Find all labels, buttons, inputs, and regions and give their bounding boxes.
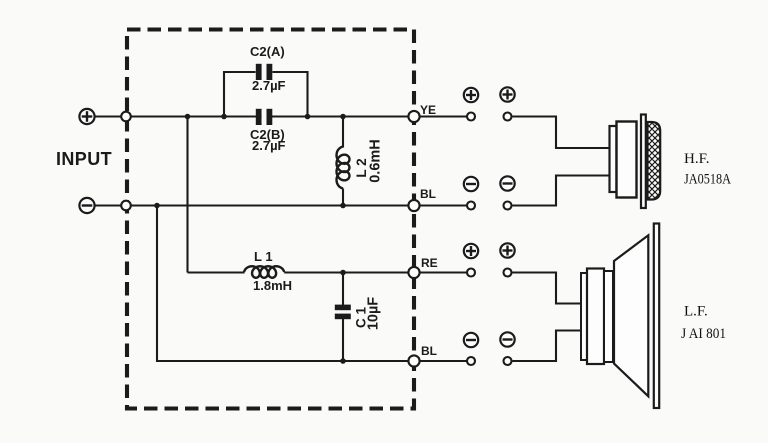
LF speaker + lug xyxy=(504,269,512,277)
wire : vertical feeder from + rail down to L1 rail xyxy=(186,117,188,273)
HF speaker - marker xyxy=(500,176,514,190)
crossover output + marker (HF) xyxy=(464,88,478,102)
box edge terminal (input -) xyxy=(121,201,131,211)
input + terminal xyxy=(79,109,94,124)
woofer magnet front slab xyxy=(604,271,613,362)
crossover output - marker (HF) xyxy=(464,177,478,191)
crossover output lug (LF -) xyxy=(467,357,475,365)
woofer magnet main slab xyxy=(587,269,604,365)
HF speaker - lug xyxy=(504,202,512,210)
svg-text:RE: RE xyxy=(421,256,438,270)
svg-text:2.7µF: 2.7µF xyxy=(252,138,286,153)
LF speaker + marker xyxy=(500,243,514,257)
box edge terminal RE xyxy=(408,267,419,278)
woofer cone xyxy=(614,235,648,396)
dashed crossover network box xyxy=(127,30,414,409)
input - terminal xyxy=(79,198,94,213)
wire YE terminal to HF+ lug xyxy=(420,115,468,117)
svg-text:L.F.: L.F. xyxy=(684,304,708,320)
tweeter crosshatched dome xyxy=(648,122,661,200)
wire : - input to BL terminal (rail y=205.5) xyxy=(94,204,414,206)
woofer magnet back slab xyxy=(581,273,587,360)
svg-text:J AI 801: J AI 801 xyxy=(681,326,726,342)
wire LF- to woofer xyxy=(513,331,583,362)
svg-text:JA0518A: JA0518A xyxy=(684,172,731,188)
capacitor C2(B) plates xyxy=(256,109,262,125)
svg-text:BL: BL xyxy=(421,344,437,358)
svg-text:2.7µF: 2.7µF xyxy=(252,78,286,93)
svg-text:C2(A): C2(A) xyxy=(250,44,285,59)
junction node: C2 branch left xyxy=(221,114,227,120)
HF speaker + lug xyxy=(504,113,512,121)
box edge terminal BL (LF) xyxy=(408,355,419,366)
junction node: feeder tap on + rail xyxy=(185,114,191,120)
crossover output - marker (LF) xyxy=(464,333,478,347)
svg-text:YE: YE xyxy=(420,103,436,117)
crossover output lug (LF +) xyxy=(467,269,475,277)
capacitor C2(A) plates xyxy=(256,64,262,80)
wire : vertical feeder from - rail down to bottom rail xyxy=(157,206,414,362)
wire : L1 rail from feeder to RE terminal xyxy=(188,271,245,273)
tweeter mounting flange xyxy=(641,115,646,209)
wire RE terminal to LF+ lug xyxy=(420,271,468,273)
crossover output + marker (LF) xyxy=(464,244,478,258)
woofer frame flange xyxy=(654,224,659,409)
HF speaker + marker xyxy=(500,87,514,101)
svg-text:H.F.: H.F. xyxy=(684,151,709,167)
tweeter back plate xyxy=(610,126,617,192)
svg-text:BL: BL xyxy=(420,187,436,201)
junction node: feeder tap on - rail xyxy=(154,203,160,209)
junction node: L2 top xyxy=(340,114,346,120)
svg-text:1.8mH: 1.8mH xyxy=(253,278,292,293)
box edge terminal BL (HF) xyxy=(408,200,419,211)
box edge terminal (input +) xyxy=(121,112,131,122)
junction node: C1 bottom xyxy=(340,358,346,364)
junction node: C1 top xyxy=(340,270,346,276)
capacitor C1 (10uF shunt) xyxy=(342,273,344,306)
inductor L2 (0.6mH shunt) xyxy=(342,117,344,148)
LF speaker - lug xyxy=(504,357,512,365)
wire HF- to tweeter xyxy=(513,176,611,206)
LF speaker - marker xyxy=(500,332,514,346)
svg-text:INPUT: INPUT xyxy=(56,149,112,169)
wire BL terminal to LF- lug xyxy=(420,360,468,362)
crossover output lug (HF +) xyxy=(467,113,475,121)
wire LF+ to woofer xyxy=(513,273,583,304)
inductor L1 (1.8mH series) xyxy=(244,266,284,278)
svg-text:L 1: L 1 xyxy=(254,249,273,264)
wire HF+ to tweeter xyxy=(513,117,611,149)
crossover output lug (HF -) xyxy=(467,202,475,210)
tweeter body xyxy=(617,122,637,198)
box edge terminal YE xyxy=(408,111,419,122)
svg-text:0.6mH: 0.6mH xyxy=(368,139,384,183)
capacitor C2(A) branch loop xyxy=(224,72,256,117)
junction node: L2 bottom xyxy=(340,203,346,209)
junction node: C2 branch right xyxy=(305,114,311,120)
wire BL terminal to HF- lug xyxy=(420,204,468,206)
wire : + input to YE terminal (top rail y=116.5) xyxy=(94,115,414,117)
svg-text:10µF: 10µF xyxy=(366,297,382,330)
